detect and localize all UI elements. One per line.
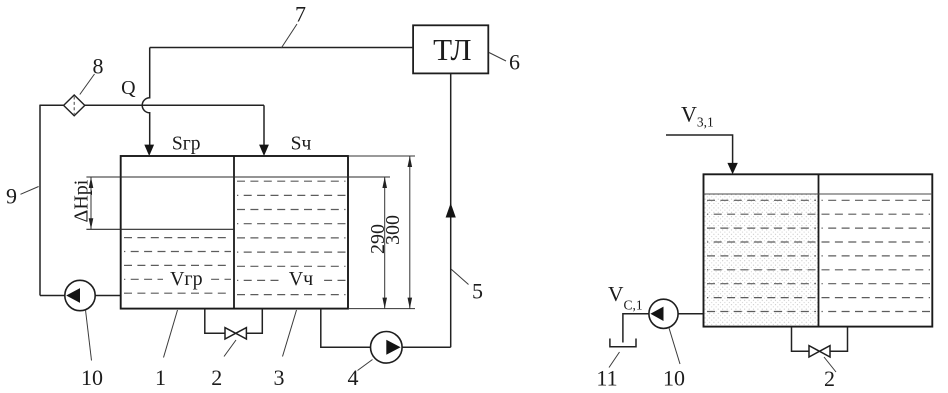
drain pipe with valve V2 (left tank) [205,309,262,339]
leader label 2 right [824,357,836,391]
leader label 1 [155,310,178,390]
svg-text:Sч: Sч [291,134,312,155]
svg-text:ΔHpi: ΔHpi [71,179,93,222]
svg-text:Sгр: Sгр [172,134,201,155]
controller box U6 (ТЛ) [413,25,488,73]
extension line tank top [348,155,415,157]
leader label 7 [281,2,306,49]
svg-text:10: 10 [663,365,685,390]
tank divider wall [233,156,235,309]
tank divider wall [818,174,820,326]
leader label 2 [211,340,236,390]
leader label 3 [274,310,297,390]
leader label 5 [451,269,483,304]
leader label 9 [6,184,39,209]
pump P10 left diagram [40,280,121,310]
inlet V3,1 with arrow [666,135,738,174]
svg-text:2: 2 [824,366,835,391]
pump P10 right diagram [623,299,704,342]
wire 5 (riser to ТЛ with up arrow) [446,73,456,347]
svg-text:11: 11 [596,365,617,390]
svg-text:4: 4 [348,365,359,390]
svg-text:300: 300 [382,215,404,245]
leader label 10 right [663,328,685,390]
leader label 6 [489,49,520,74]
leader label 11 [596,352,619,390]
svg-text:8: 8 [93,54,104,79]
dimension 290 [367,177,389,309]
water dashes right tank right chamber [822,200,931,311]
svg-text:9: 9 [6,184,17,209]
leader label 8 [80,54,104,95]
tank T2 (right, two chambers) [704,174,933,326]
wire from 7 down with crossing hop and arrow into tank (Sгр inlet) [142,48,154,157]
svg-text:ТЛ: ТЛ [433,32,471,67]
svg-text:2: 2 [211,365,222,390]
svg-text:Vч: Vч [289,268,314,290]
label Vч [283,267,320,290]
wire 7 (horizontal signal line to ТЛ) [150,47,413,49]
water level line left chamber [86,228,234,230]
water level line (full width, top of Sч water) [86,176,390,178]
leader label 4 [348,360,373,390]
tank T1 (left, two chambers) [121,156,348,309]
filter F8 (diamond) [64,95,85,116]
extension line tank bottom [348,308,415,310]
svg-text:7: 7 [295,2,306,27]
wire 9 (left return line) [39,105,41,296]
pump P4 with outlet pipe [321,309,451,364]
dimension 300 [382,156,412,309]
svg-text:Vгр: Vгр [170,268,203,290]
water level line right tank [704,193,933,195]
svg-text:1: 1 [155,365,166,390]
svg-text:5: 5 [472,279,483,304]
water dashes left chamber Vгр [124,238,231,294]
wire down into tank (Sч inlet) [259,105,269,156]
dimension ΔHpi [71,177,94,229]
reservoir symbol 11 [610,339,636,347]
drain pipe with valve V2 (right tank) [792,327,848,357]
label Vгр [163,267,210,290]
stipple fill left chamber [705,194,818,325]
svg-text:3: 3 [274,365,285,390]
svg-text:6: 6 [509,49,520,74]
svg-text:10: 10 [81,365,103,390]
wire main horizontal line y=105 [40,104,264,106]
svg-text:Q: Q [121,77,136,99]
water dashes right chamber Vч [237,181,346,294]
leader label 10 [81,310,103,390]
water dashes right tank left chamber [707,200,816,311]
